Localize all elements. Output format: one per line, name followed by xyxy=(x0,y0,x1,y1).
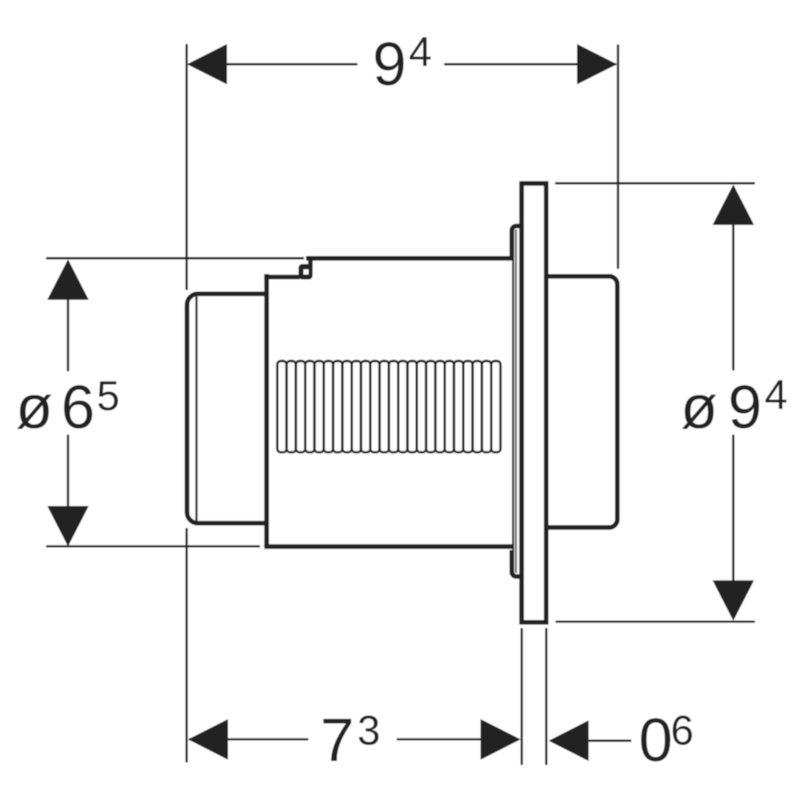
dimension 06 bottom: extension line xyxy=(545,628,547,765)
dimension 73 bottom: left extension line xyxy=(185,528,187,763)
svg-text:7: 7 xyxy=(320,706,354,774)
main body outline xyxy=(306,256,512,261)
svg-text:4: 4 xyxy=(409,28,432,75)
dimension 94 top: right extension line xyxy=(617,45,619,269)
svg-text:3: 3 xyxy=(357,707,380,754)
dimension 94 top: left extension line xyxy=(185,44,187,290)
dimension 94 top: dimension line xyxy=(189,63,358,65)
dimension dia 94 right: top extension line xyxy=(555,182,755,184)
dimension dia 65 left: top arrowhead xyxy=(47,259,88,299)
dimension dia 65 left: bottom extension line xyxy=(46,545,260,547)
svg-text:ø: ø xyxy=(16,373,53,441)
dimension 06 bottom: dimension line xyxy=(589,740,632,742)
dimension dia 94 right: top arrowhead xyxy=(713,185,754,225)
dimension dia 94 right: bottom arrowhead xyxy=(713,580,754,620)
svg-text:ø: ø xyxy=(681,373,718,441)
flange gray inner line xyxy=(515,230,517,574)
dimension 73 bottom: dimension line xyxy=(189,738,308,740)
dimension dia 65 left: dimension line xyxy=(67,261,69,371)
dimension dia 94 right: bottom extension line xyxy=(556,620,756,622)
dimension 06 bottom: arrowhead xyxy=(549,720,589,761)
latch hook detail xyxy=(298,256,312,279)
svg-text:4: 4 xyxy=(765,371,788,418)
svg-text:0: 0 xyxy=(639,706,673,774)
dimension 73 bottom: right extension line xyxy=(521,628,523,765)
grip ribs xyxy=(277,361,500,452)
button cap (front) xyxy=(187,294,268,523)
flange ring behind plate xyxy=(512,226,526,577)
mounting plate xyxy=(522,183,547,622)
dimension 94 top: left arrowhead xyxy=(187,44,227,84)
dimension 73 bottom: left arrowhead xyxy=(188,719,228,760)
svg-text:6: 6 xyxy=(61,373,95,441)
cap inner face line xyxy=(195,296,197,521)
svg-text:5: 5 xyxy=(97,372,120,419)
dimension dia 65 left: bottom arrowhead xyxy=(47,506,88,546)
right cylinder (behind-wall body) xyxy=(544,276,617,527)
dimension 73 bottom: right arrowhead xyxy=(481,719,521,760)
svg-text:9: 9 xyxy=(373,30,407,98)
dimension dia 65 left: top extension line xyxy=(46,257,304,259)
main body fill xyxy=(264,256,512,550)
dimension dia 94 right: dimension line xyxy=(732,187,734,371)
svg-text:9: 9 xyxy=(728,373,762,441)
svg-text:6: 6 xyxy=(671,706,694,753)
dimension 94 top: right arrowhead xyxy=(577,44,617,84)
